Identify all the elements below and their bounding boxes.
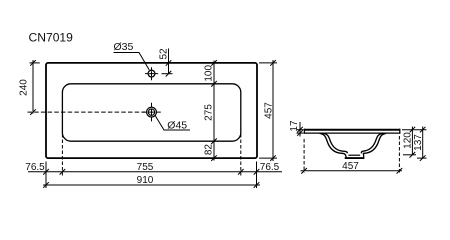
svg-text:17: 17 <box>289 120 300 132</box>
svg-text:457: 457 <box>263 102 274 119</box>
svg-text:910: 910 <box>137 175 154 186</box>
svg-text:CN7019: CN7019 <box>29 31 74 45</box>
bowl outer wall right <box>363 133 386 157</box>
rim left end cap <box>303 129 305 134</box>
rim top line <box>304 129 400 131</box>
basin inner bowl rounded rect <box>62 84 240 141</box>
drain hole O45 <box>142 103 161 122</box>
svg-text:76.5: 76.5 <box>260 162 280 173</box>
dashed extension line left inner edge <box>61 134 63 176</box>
drain recess line <box>348 154 360 156</box>
basin outer rect <box>46 63 257 158</box>
dashed extension line right inner edge <box>240 134 242 176</box>
svg-text:Ø35: Ø35 <box>114 41 134 53</box>
extension line left outer edge <box>45 162 47 189</box>
foot bottom flat <box>345 157 365 159</box>
rim bottom line <box>304 132 400 134</box>
label O35 with leader <box>114 41 150 70</box>
svg-text:76.5: 76.5 <box>25 162 45 173</box>
svg-text:755: 755 <box>137 162 154 173</box>
centerline horizontal (dash) <box>28 111 146 113</box>
dim 910 <box>43 175 260 188</box>
extension line right outer edge <box>256 162 258 189</box>
top extension line right of side view <box>402 129 427 131</box>
dim row 76.5 / 755 / 76.5 <box>25 162 282 174</box>
svg-text:100: 100 <box>203 65 214 82</box>
dim column 100 / 275 / 82 <box>203 60 217 161</box>
bowl inner wall left <box>323 133 348 153</box>
dim 240 (left) <box>19 60 40 115</box>
svg-text:275: 275 <box>203 104 214 121</box>
dim 457 (side view bottom) <box>301 161 403 174</box>
dashed extension line side view left tip <box>303 139 305 173</box>
dim 457 (right of plan) <box>259 60 277 161</box>
svg-text:52: 52 <box>159 48 170 60</box>
svg-text:82: 82 <box>203 144 214 156</box>
faucet hole O35 <box>145 67 158 80</box>
rim right end cap <box>399 129 401 134</box>
label O45 with leader <box>155 116 190 132</box>
bowl inner wall right <box>361 133 383 153</box>
dim 120 <box>403 127 416 158</box>
dim 17 (rim thickness) <box>289 120 304 136</box>
bowl outer wall left <box>320 133 347 157</box>
dashed extension line side view right tip <box>398 136 400 173</box>
svg-text:240: 240 <box>19 79 30 96</box>
svg-text:137: 137 <box>413 134 424 151</box>
dim 52 (top edge to faucet hole) <box>159 48 173 77</box>
svg-text:457: 457 <box>342 161 359 172</box>
dim 137 <box>413 127 427 161</box>
